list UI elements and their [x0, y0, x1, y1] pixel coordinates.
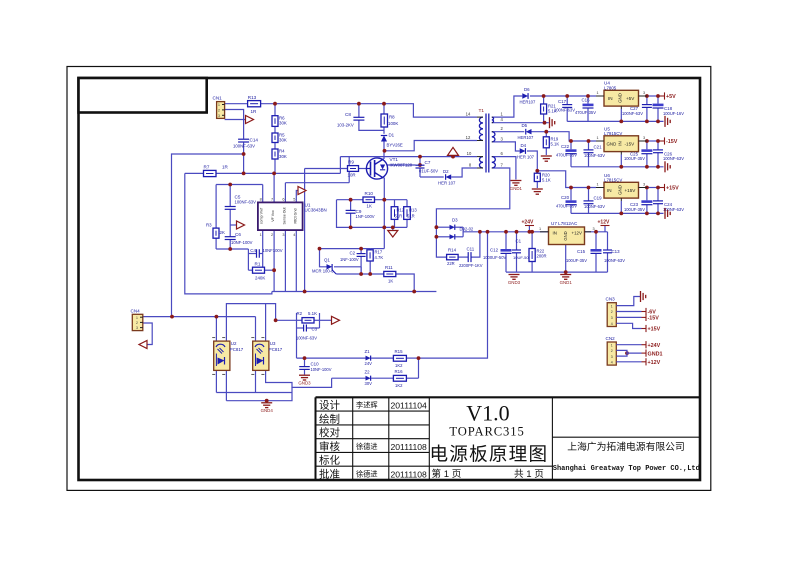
- svg-text:GND1: GND1: [510, 186, 523, 191]
- wire R19 column: [545, 132, 547, 137]
- wire aux branch left down to CN4 rail: [172, 154, 244, 317]
- capacitor C9: [346, 209, 356, 211]
- capacitor C24: [653, 200, 663, 202]
- svg-text:R13: R13: [248, 95, 257, 100]
- svg-text:HER 107: HER 107: [517, 155, 535, 160]
- power port triangle above pin10 rail: [448, 147, 459, 155]
- svg-text:4: 4: [293, 233, 295, 237]
- wire R20 gnd stub: [536, 182, 538, 189]
- svg-text:100NF-63V: 100NF-63V: [622, 111, 643, 116]
- svg-text:GND: GND: [618, 185, 623, 195]
- ic U1 UC3843BN: [258, 202, 303, 230]
- svg-text:100NF-63V: 100NF-63V: [604, 258, 625, 263]
- wire D5 output jog to U5: [532, 132, 597, 141]
- capacitor C13: [603, 249, 612, 251]
- svg-text:100NF-63V: 100NF-63V: [663, 207, 684, 212]
- svg-text:C19: C19: [594, 196, 603, 201]
- svg-text:Q1: Q1: [324, 257, 330, 262]
- svg-text:1R: 1R: [251, 109, 258, 114]
- svg-text:上海广为拓浦电源有限公司: 上海广为拓浦电源有限公司: [567, 440, 685, 453]
- resistor R2: [302, 318, 314, 323]
- svg-text:1NF-100V: 1NF-100V: [356, 214, 375, 219]
- CN2 pin1 wire to +24V port: [616, 344, 641, 346]
- svg-text:100UF-35V: 100UF-35V: [624, 156, 645, 161]
- wire lower loop row to C4 bracket: [216, 248, 248, 250]
- svg-text:1K: 1K: [367, 204, 372, 209]
- transformer primary winding pins 14-12: [479, 117, 483, 140]
- wire C1 column: [516, 232, 518, 250]
- wire CN4 row: [143, 316, 256, 318]
- svg-text:100K: 100K: [388, 121, 398, 126]
- ground ladder U4 rail: [665, 116, 670, 127]
- ground GND3 below C10: [299, 375, 310, 380]
- wire transformer pin1 riser to D6: [493, 96, 523, 117]
- wire R8 C8 snubber: [358, 104, 360, 118]
- svg-text:C7: C7: [425, 160, 431, 165]
- port arrow feedback: [332, 316, 340, 324]
- svg-text:BYV26E: BYV26E: [387, 142, 403, 147]
- wire Q1 gate row through R11: [336, 273, 384, 275]
- transformer aux winding pins 10-8: [479, 157, 483, 168]
- wire U5 gnd pin drop: [620, 155, 622, 167]
- CN3 pin1 wire to rotated ground: [616, 297, 640, 306]
- wire bottom return line: [272, 291, 437, 293]
- wire U5 ground bus: [571, 166, 664, 168]
- svg-text:10R: 10R: [348, 173, 356, 178]
- svg-text:100NF-63V: 100NF-63V: [554, 107, 575, 112]
- svg-text:C16: C16: [582, 97, 591, 102]
- connector CN1: [217, 102, 225, 119]
- svg-text:1: 1: [136, 316, 138, 320]
- wire U4 row cap columns: [566, 96, 568, 105]
- capacitor C7: [416, 164, 425, 166]
- zener Z2: [366, 376, 371, 381]
- capacitor C21: [584, 149, 594, 151]
- svg-text:D92-02: D92-02: [460, 227, 474, 232]
- svg-text:10NF-100V: 10NF-100V: [311, 367, 332, 372]
- wire C10 column: [304, 358, 306, 367]
- svg-text:C6: C6: [235, 232, 241, 237]
- svg-text:100UF-35V: 100UF-35V: [624, 207, 645, 212]
- wire GND4 stub: [266, 401, 268, 403]
- wire C12 column: [505, 232, 507, 249]
- capacitor C26: [653, 149, 663, 151]
- svg-text:1000UF-50V: 1000UF-50V: [483, 255, 506, 260]
- resistor R19: [543, 137, 549, 148]
- capacitor C25 electrolytic: [641, 149, 652, 152]
- svg-text:200R: 200R: [537, 254, 547, 259]
- wire U1 pin1 drop: [262, 230, 264, 270]
- svg-text:1: 1: [611, 304, 613, 308]
- rotated ground at CN3: [641, 291, 646, 302]
- svg-text:1K: 1K: [388, 279, 393, 284]
- svg-text:470UF-35V: 470UF-35V: [556, 152, 577, 157]
- svg-text:GND: GND: [563, 231, 568, 240]
- svg-text:7: 7: [271, 198, 273, 202]
- svg-text:10NF-100V: 10NF-100V: [231, 240, 253, 245]
- svg-text:1: 1: [260, 233, 262, 237]
- svg-text:2: 2: [136, 321, 138, 325]
- svg-text:D6: D6: [524, 87, 530, 92]
- svg-text:100NF-63V: 100NF-63V: [663, 156, 684, 161]
- wire R12 column: [394, 200, 396, 207]
- svg-text:C10: C10: [311, 361, 320, 366]
- svg-text:5: 5: [293, 198, 295, 202]
- svg-text:+12V: +12V: [598, 219, 610, 225]
- svg-text:VT1: VT1: [390, 157, 399, 162]
- svg-text:GND1: GND1: [560, 280, 573, 285]
- resistor R5: [272, 133, 278, 143]
- ground GND1 below U7: [560, 275, 571, 280]
- svg-text:IN: IN: [607, 188, 612, 193]
- svg-text:3: 3: [643, 136, 645, 140]
- capacitor C14: [238, 138, 249, 140]
- svg-text:D1: D1: [389, 133, 395, 138]
- svg-text:3: 3: [611, 355, 613, 359]
- junction dots: [273, 102, 277, 106]
- svg-text:3: 3: [593, 227, 595, 231]
- CN2 pin4 wire to +12V port: [616, 361, 641, 363]
- optocoupler pin tick marks: [212, 337, 215, 339]
- transformer secondary winding pins 2-3: [492, 132, 495, 142]
- wire top rail CN1 to transformer pin14: [225, 103, 248, 105]
- resistor R3: [213, 228, 219, 238]
- wire Q1 cathode to C2 column: [334, 266, 361, 268]
- wire transformer pin2 to D5: [493, 131, 525, 133]
- wire +24V port stub: [528, 226, 530, 232]
- svg-text:01UF-50V: 01UF-50V: [419, 169, 438, 174]
- wire gnd stub below bus: [392, 227, 394, 230]
- svg-text:12: 12: [466, 135, 471, 140]
- svg-text:100UF-16V: 100UF-16V: [663, 111, 684, 116]
- svg-text:100UF-35V: 100UF-35V: [566, 258, 587, 263]
- svg-text:CN1: CN1: [213, 96, 223, 101]
- svg-text:徐德进: 徐德进: [356, 442, 378, 451]
- wire CN1 pin2 to C14 top: [225, 110, 244, 139]
- wire R6 R5 R4 divider chain: [274, 104, 276, 116]
- resistor R4: [272, 149, 278, 159]
- resistor R9: [348, 166, 359, 172]
- wire U7 gnd pin drop: [565, 245, 567, 273]
- capacitor C18 electrolytic: [653, 104, 664, 107]
- svg-text:comp Vref: comp Vref: [260, 208, 264, 224]
- svg-text:3: 3: [136, 326, 138, 330]
- wire U1 pin2 drop: [273, 230, 275, 291]
- svg-text:李述辉: 李述辉: [356, 401, 378, 410]
- CN2 pins2-3 wire to GND1 port: [616, 350, 627, 353]
- wire emitter column: [383, 178, 385, 249]
- svg-text:-15V: -15V: [666, 139, 678, 145]
- svg-text:100NF-63V: 100NF-63V: [584, 204, 605, 209]
- svg-text:2K: 2K: [220, 230, 225, 235]
- wire U2 top-left stub: [215, 317, 217, 342]
- wire transformer pin7 long drop to D3: [436, 168, 509, 223]
- svg-text:R13: R13: [409, 207, 417, 212]
- svg-text:51R: 51R: [407, 213, 415, 218]
- svg-text:R9: R9: [348, 159, 354, 164]
- connector CN3: [607, 303, 616, 327]
- ground GND3 below C12: [509, 275, 520, 280]
- resistor R15: [393, 355, 406, 361]
- svg-text:GND3: GND3: [508, 280, 521, 285]
- svg-text:Z2: Z2: [365, 369, 371, 374]
- zener Z1: [366, 356, 371, 361]
- svg-text:IN: IN: [618, 141, 623, 145]
- resistor R22: [529, 249, 535, 262]
- diode D6 HER107: [522, 93, 528, 98]
- wire Z1 row: [297, 357, 366, 359]
- wire emitter to Q1 top rail: [370, 248, 384, 250]
- svg-text:2200PF-1KV: 2200PF-1KV: [459, 263, 483, 268]
- wire U7 output rail: [585, 231, 608, 233]
- wire transformer pin6 to GND1: [493, 157, 516, 180]
- wire U4 gnd pin drop: [620, 109, 622, 121]
- CN3 pin3 wire to -15V port: [616, 316, 641, 318]
- capacitor C12 electrolytic: [501, 249, 512, 252]
- svg-text:10NF100V: 10NF100V: [263, 248, 283, 253]
- capacitor C2: [357, 253, 366, 255]
- wire R2 node drop to Z1 row: [296, 328, 298, 358]
- capacitor C17: [562, 104, 572, 106]
- capacitor C5: [225, 206, 236, 208]
- svg-text:C21: C21: [594, 145, 603, 150]
- svg-text:D4: D4: [521, 143, 527, 148]
- svg-text:2: 2: [611, 310, 613, 314]
- resistor R13: [248, 101, 261, 107]
- wire U6 gnd pin drop: [620, 201, 622, 213]
- svg-text:1: 1: [539, 227, 541, 231]
- svg-text:共 1 页: 共 1 页: [514, 469, 544, 480]
- wire D3 left column: [436, 223, 446, 257]
- diode D3 dual D92-02: [450, 225, 455, 230]
- resistor R17: [367, 250, 373, 261]
- CN3 pin4 wire to +15V port: [616, 323, 641, 328]
- svg-text:5.1K: 5.1K: [551, 142, 560, 147]
- svg-text:V1.0: V1.0: [466, 401, 509, 426]
- svg-text:3: 3: [282, 233, 284, 237]
- wire C13 column: [607, 232, 609, 250]
- wire sense bottom bus: [337, 200, 408, 228]
- wire R21 column: [543, 96, 545, 104]
- svg-text:20111104: 20111104: [391, 401, 428, 411]
- wire +12V port stub: [604, 226, 606, 232]
- svg-text:PC817: PC817: [230, 347, 244, 352]
- svg-text:30V: 30V: [365, 381, 373, 386]
- svg-text:+15V: +15V: [625, 188, 637, 193]
- svg-text:PC817: PC817: [269, 347, 283, 352]
- svg-text:+5V: +5V: [626, 96, 635, 101]
- port -15V: [660, 140, 665, 142]
- wire gate drive riser and R9 row: [305, 168, 348, 170]
- connector CN2: [607, 342, 616, 365]
- transformer secondary winding pins 6-7: [492, 157, 496, 168]
- wire D2 row: [420, 176, 444, 178]
- svg-text:C1: C1: [516, 238, 522, 243]
- svg-text:1: 1: [218, 103, 220, 107]
- svg-text:U2: U2: [231, 341, 237, 346]
- svg-text:D3: D3: [452, 217, 458, 222]
- svg-text:U7 L7812AC: U7 L7812AC: [551, 221, 578, 226]
- svg-text:GND1: GND1: [648, 351, 663, 357]
- svg-text:3: 3: [643, 91, 645, 95]
- svg-text:C8: C8: [345, 112, 351, 117]
- svg-text:100NF-63V: 100NF-63V: [296, 336, 317, 341]
- svg-text:U3: U3: [270, 341, 276, 346]
- svg-text:TOPARC315: TOPARC315: [449, 424, 524, 438]
- wire D4 output to R20 node and U6: [527, 151, 537, 173]
- svg-text:GND4: GND4: [261, 408, 274, 413]
- wire opto bottom rails: [215, 370, 217, 392]
- resistor R14: [447, 254, 459, 259]
- transformer secondary winding pins 1-4: [492, 117, 494, 123]
- wire U5 row cap columns: [570, 141, 572, 149]
- capacitor C23 electrolytic: [641, 200, 652, 203]
- svg-text:审核: 审核: [319, 440, 340, 453]
- svg-text:R7: R7: [204, 165, 210, 170]
- wire R7 rail left drop to bottom return: [185, 173, 272, 294]
- svg-text:103-2KV: 103-2KV: [337, 123, 354, 128]
- wire C15 column: [595, 232, 597, 249]
- wire R22 column: [531, 232, 533, 249]
- svg-text:RtCt Gnd: RtCt Gnd: [293, 209, 297, 224]
- svg-text:+15V: +15V: [648, 327, 661, 333]
- resistor R16: [393, 375, 406, 381]
- capacitor C19: [584, 200, 594, 202]
- svg-text:R10: R10: [365, 191, 374, 196]
- capacitor C27: [642, 104, 652, 106]
- svg-text:51R: 51R: [395, 213, 403, 218]
- wire U2 top-right riser: [226, 304, 275, 342]
- svg-text:100NF-63V: 100NF-63V: [233, 143, 255, 148]
- svg-text:14: 14: [466, 112, 471, 117]
- wire Q1 anode: [320, 249, 327, 267]
- wire R2 C3 feedback row: [276, 319, 297, 321]
- svg-text:VF Vcc: VF Vcc: [271, 210, 275, 222]
- svg-text:-15V: -15V: [648, 316, 660, 322]
- wire U1 pin3 drop: [284, 230, 286, 291]
- svg-text:C14: C14: [250, 138, 259, 143]
- resistor R8: [381, 114, 388, 127]
- svg-text:校对: 校对: [319, 426, 340, 439]
- port arrow below CN4: [139, 341, 147, 349]
- wire CN4 lower pin to arrow: [143, 323, 152, 345]
- svg-text:R11: R11: [385, 265, 393, 270]
- svg-text:C13: C13: [612, 249, 621, 254]
- top-left revision box: [79, 78, 207, 113]
- svg-text:+12V: +12V: [648, 360, 661, 366]
- svg-text:C4: C4: [250, 248, 256, 253]
- capacitor C4: [256, 249, 258, 258]
- resistor R11: [384, 271, 396, 276]
- svg-text:6: 6: [282, 198, 284, 202]
- svg-text:+15V: +15V: [666, 186, 679, 192]
- svg-text:1K2: 1K2: [395, 383, 403, 388]
- svg-text:徐德进: 徐德进: [356, 470, 378, 479]
- capacitor C16 electrolytic: [583, 104, 594, 107]
- svg-text:Shanghai Greatway Top Power CO: Shanghai Greatway Top Power CO.,Ltd: [553, 465, 700, 473]
- wire D1 to collector node: [383, 142, 385, 160]
- wire U3 top-left stub: [255, 317, 257, 342]
- svg-text:标化: 标化: [319, 454, 340, 467]
- svg-text:1: 1: [611, 343, 613, 347]
- capacitor C8: [353, 116, 364, 118]
- resistor R12: [391, 207, 398, 220]
- wire U3 top-right riser: [265, 304, 267, 342]
- resistor R10: [363, 197, 375, 202]
- wire R17 stubs: [369, 249, 371, 250]
- wire C9 column: [350, 200, 352, 211]
- wire U1 pin7 riser: [273, 173, 275, 202]
- svg-text:R8: R8: [389, 114, 395, 119]
- diode D2 HER107: [446, 174, 452, 179]
- wire U6 output to +15V port: [647, 187, 660, 189]
- svg-text:1: 1: [597, 136, 599, 140]
- svg-text:C3: C3: [312, 326, 318, 331]
- svg-text:C12: C12: [490, 247, 499, 252]
- svg-text:C2: C2: [350, 250, 356, 255]
- capacitor C3: [303, 325, 305, 332]
- wire R7 rail: [185, 172, 204, 174]
- svg-text:GND: GND: [618, 93, 623, 103]
- svg-text:3: 3: [643, 183, 645, 187]
- wire R14 C11 snubber row: [458, 256, 468, 258]
- svg-text:R2: R2: [297, 311, 303, 316]
- wire U6 row cap columns: [570, 188, 572, 201]
- svg-text:+24V: +24V: [522, 219, 534, 225]
- svg-text:HER107: HER107: [518, 135, 534, 140]
- wire vcc rail risers: [339, 157, 341, 174]
- outer border frame: [67, 67, 711, 491]
- wire U6 ground bus: [571, 212, 664, 214]
- svg-text:R1: R1: [255, 261, 261, 266]
- svg-text:MCR 100-6: MCR 100-6: [312, 268, 334, 273]
- optocoupler U2 PC817: [214, 341, 230, 370]
- svg-text:Z1: Z1: [365, 349, 371, 354]
- resistor R13 sense: [404, 207, 411, 220]
- svg-text:-15V: -15V: [625, 142, 636, 147]
- wire C14 bottom to R7 rail: [243, 143, 245, 174]
- wire C4 R1 bracket: [247, 249, 249, 270]
- svg-text:CN2: CN2: [606, 336, 616, 341]
- svg-text:470UF-35V: 470UF-35V: [556, 203, 577, 208]
- transistor VT1 IKW08T120 IGBT: [366, 158, 387, 179]
- ground below R20: [532, 189, 543, 194]
- capacitor C11: [467, 252, 469, 262]
- svg-text:5.1K: 5.1K: [308, 311, 317, 316]
- svg-text:1: 1: [597, 183, 599, 187]
- svg-text:Sense Out: Sense Out: [282, 208, 286, 225]
- wire C5 C6 column: [229, 185, 231, 207]
- svg-text:3: 3: [611, 316, 613, 320]
- CN3 pin2 wire to -6V port: [616, 311, 641, 313]
- svg-text:D5: D5: [522, 123, 528, 128]
- svg-text:5.1K: 5.1K: [542, 178, 551, 183]
- svg-text:2: 2: [271, 233, 273, 237]
- svg-text:C11: C11: [467, 247, 475, 252]
- ground below R19: [541, 156, 552, 161]
- svg-text:+5V: +5V: [666, 94, 676, 100]
- svg-text:1R: 1R: [222, 165, 229, 170]
- wire D3 right column to 24V bus: [455, 226, 463, 228]
- svg-text:1NF-100V: 1NF-100V: [340, 257, 359, 262]
- svg-text:T1: T1: [479, 108, 485, 114]
- capacitor C22 electrolytic: [566, 149, 577, 152]
- svg-text:20111108: 20111108: [391, 470, 428, 480]
- capacitor C20 electrolytic: [566, 200, 577, 203]
- svg-text:470UF-35V: 470UF-35V: [575, 110, 596, 115]
- wire Z2 row: [332, 377, 366, 379]
- svg-text:4: 4: [611, 322, 613, 326]
